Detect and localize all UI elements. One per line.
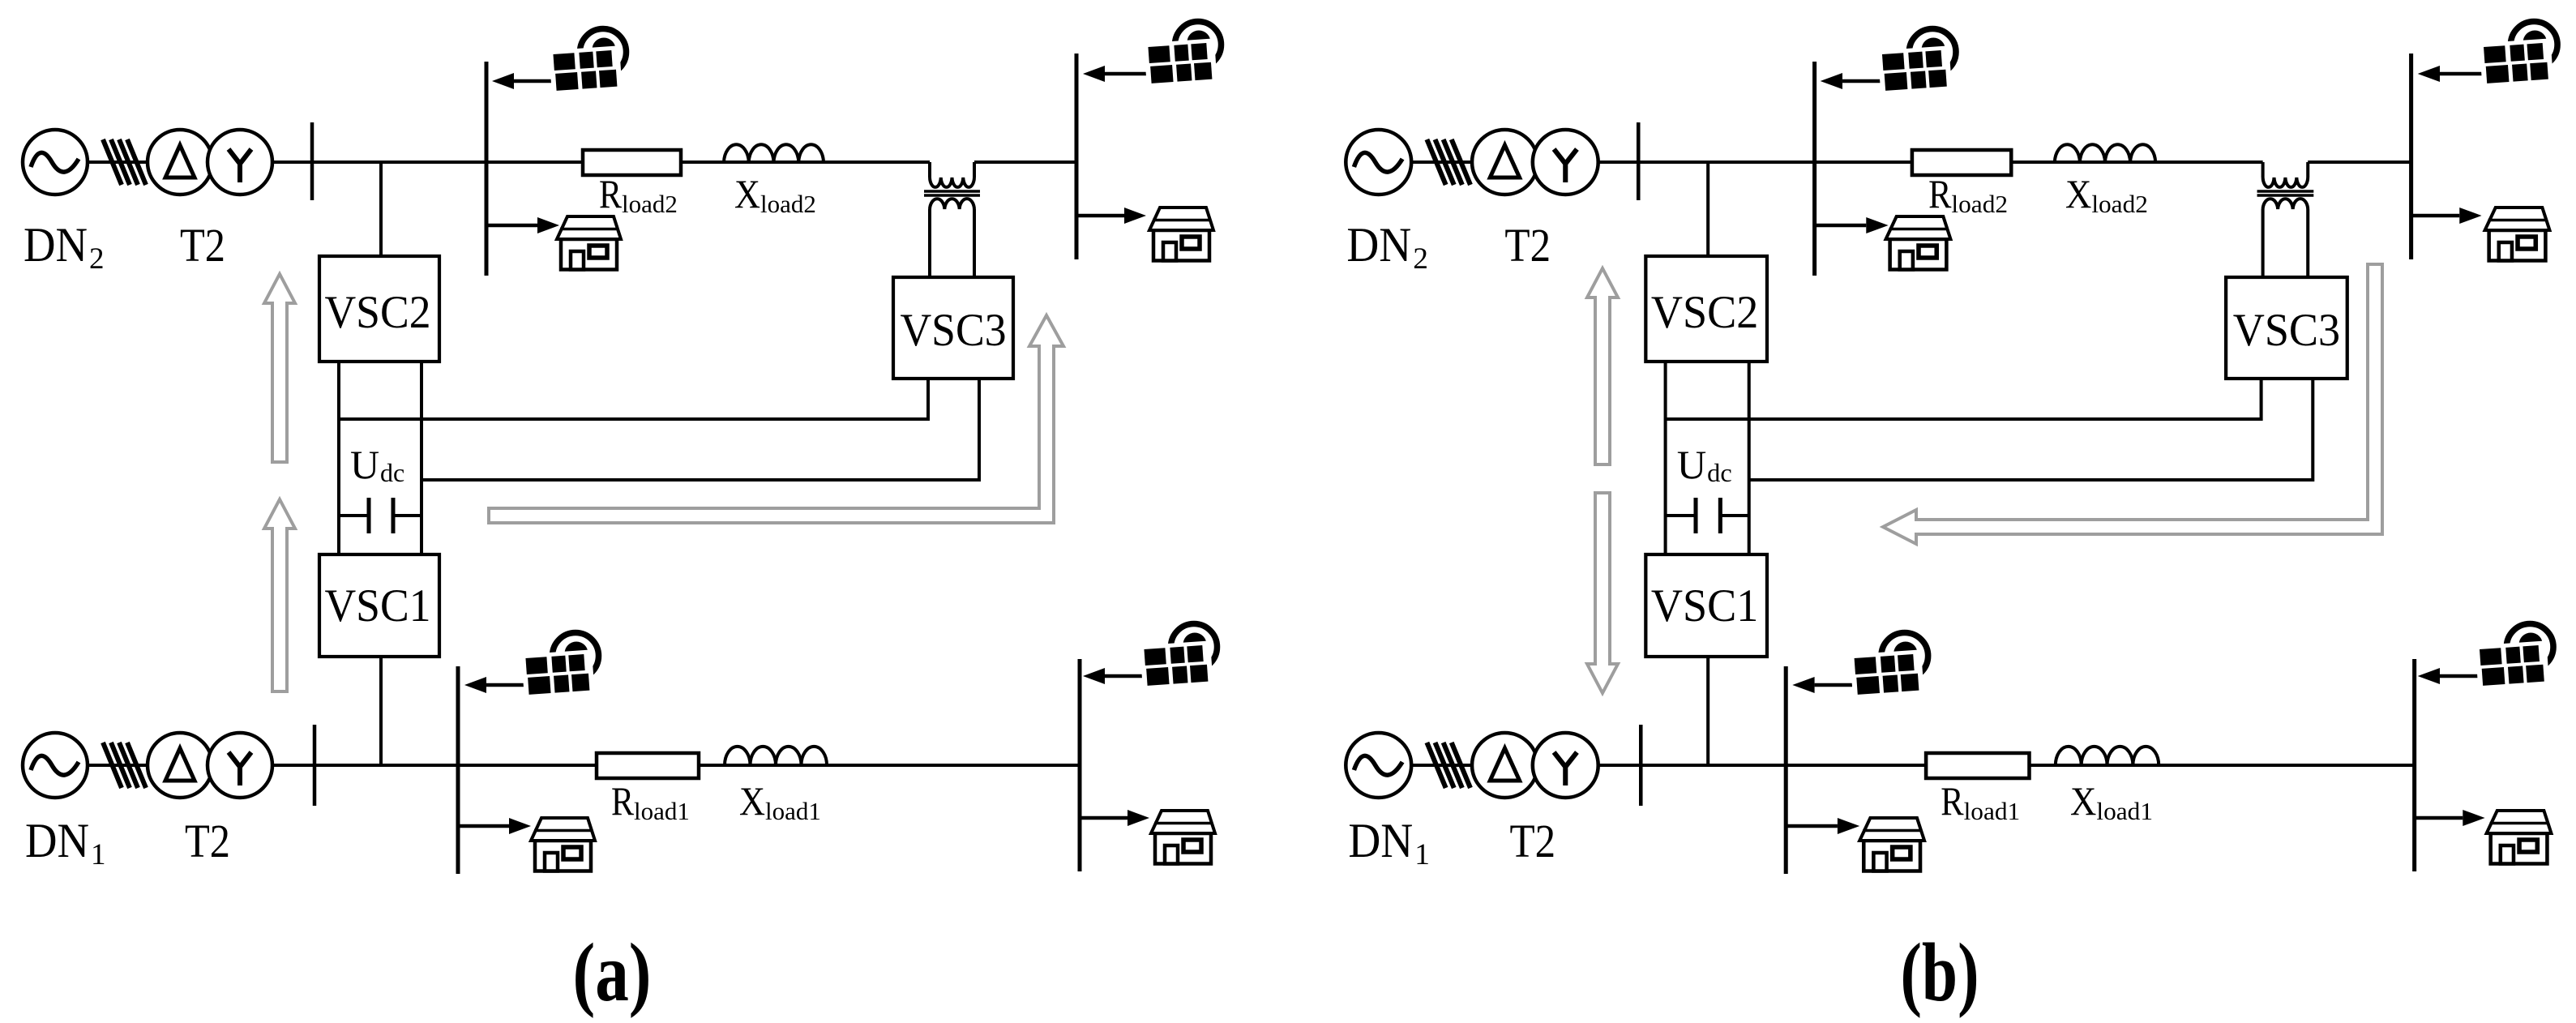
svg-text:(a): (a) — [573, 927, 652, 1019]
svg-text:(b): (b) — [1901, 927, 1979, 1019]
